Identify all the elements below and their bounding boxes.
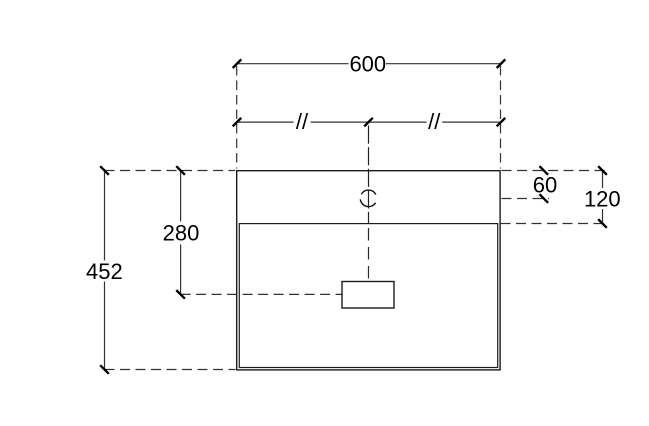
drain rectangle — [342, 282, 394, 309]
dashed extension line right vertical (x=501) — [500, 66, 502, 169]
dashed extension middle-left horizontal (y=293.8) — [181, 293, 342, 295]
svg-text:452: 452 — [86, 259, 123, 284]
dashed extension top-left horizontal (y=170.2) — [105, 170, 236, 172]
vertical dimension line 120 — [602, 171, 604, 224]
dimension line 600 — [237, 63, 501, 65]
tick split centre — [364, 118, 373, 127]
dashed extension bottom horizontal (y=369.5) — [105, 369, 236, 371]
dimension texts — [86, 52, 621, 285]
dashed extension top-right horizontal (y=171) — [502, 170, 608, 172]
tick 60 bottom — [540, 194, 549, 203]
dashed extension 60 horizontal (y=198.3) — [502, 198, 550, 200]
vertical centre line dashed to drain — [368, 228, 370, 281]
svg-text://: // — [296, 109, 309, 134]
svg-text://: // — [428, 109, 441, 134]
dashed extension line left vertical (x=237) — [236, 66, 238, 169]
oblique ticks for horizontal dims ("/" shape) — [233, 59, 506, 126]
tick 452 top — [100, 166, 109, 175]
tick 60 top — [540, 166, 549, 175]
basin outer rectangle — [237, 171, 500, 370]
vertical centre line (solid-ish long dash through faucet) — [368, 125, 370, 224]
svg-text:280: 280 — [163, 221, 200, 246]
tick split left — [233, 118, 242, 127]
tick split right — [497, 118, 506, 127]
tick 120 bottom — [598, 219, 607, 228]
tick 120 top — [598, 166, 607, 175]
tick 280 bottom — [176, 290, 185, 299]
basin inner rectangle (bowl rim) — [239, 224, 497, 368]
tick 280 top — [176, 166, 185, 175]
equal-split dimension line with // marks — [237, 121, 501, 123]
oblique ticks for vertical dims ("\" shape) — [100, 166, 607, 374]
tick 600 right — [497, 59, 506, 68]
faucet hole symbol (two arcs) — [361, 190, 376, 195]
vertical dimension line 452 — [104, 171, 106, 370]
tick 600 left — [233, 59, 242, 68]
vertical dimension line 280 — [180, 171, 182, 295]
dashed extension 120 horizontal (y=223.7) — [501, 223, 608, 225]
svg-text:600: 600 — [349, 52, 386, 77]
svg-text:120: 120 — [584, 186, 621, 211]
svg-text:60: 60 — [533, 172, 557, 197]
tick 452 bottom — [100, 365, 109, 374]
